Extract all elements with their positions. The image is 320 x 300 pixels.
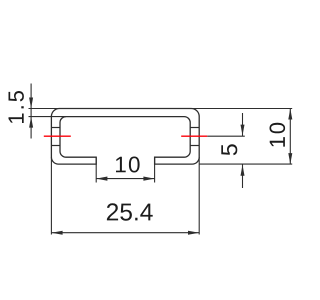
hole tick marks left wall (51, 127, 60, 129)
hole tick marks right wall (190, 127, 199, 129)
extension line: hole centerline to 5-dim (207, 135, 245, 137)
extension line: top edge across (29, 108, 293, 110)
red centerline left (44, 135, 71, 137)
extension line: slot left edge down (95, 157, 97, 182)
dimension 25.4 line + arrows (51, 232, 199, 234)
profile section outline (51, 109, 199, 165)
dimension text 10 (height) (270, 123, 286, 147)
dimension 10 (slot) line + arrows (96, 178, 154, 180)
dimension 10 (height) line + arrows (289, 109, 291, 165)
extension line: slot right edge down (154, 157, 156, 182)
red centerline right (181, 135, 207, 137)
extension line: bottom edge to right (199, 163, 292, 165)
dimension text 10 (slot) (116, 157, 140, 173)
dimension text 25.4 (107, 203, 153, 220)
dimension 1.5 line + arrows (30, 84, 32, 139)
dimension text 1.5 (9, 91, 24, 123)
dimension 5 line + arrows (242, 113, 244, 136)
extension line: outer right wall down to 25.4 dim (198, 157, 200, 234)
extension line: cavity ceiling to left (29, 116, 67, 118)
extension line: outer left wall down to 25.4 dim (50, 157, 52, 234)
dimension text 5 (221, 144, 237, 155)
